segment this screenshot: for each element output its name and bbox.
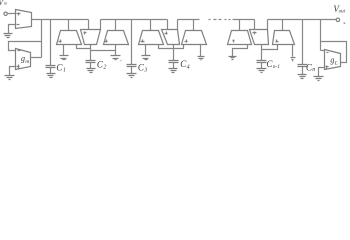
speck	[344, 22, 346, 24]
wire T6 right stub to ground mark	[200, 45, 202, 57]
wire gm output	[31, 57, 42, 59]
wire feedback tap	[9, 42, 42, 51]
svg-text:g: g	[330, 56, 334, 65]
wire gm plus to ground	[10, 67, 16, 76]
op-amp A1	[16, 10, 32, 29]
transconductor T1	[68, 20, 70, 31]
svg-text:out: out	[339, 9, 346, 14]
ground under T3	[115, 45, 117, 56]
ground	[298, 75, 307, 79]
node V5 bus	[268, 19, 337, 21]
transconductor T7	[254, 20, 256, 30]
svg-text:in: in	[4, 1, 7, 6]
wire gL plus to ground	[319, 68, 325, 77]
ground	[257, 69, 267, 73]
capacitor C2	[90, 49, 92, 61]
transconductor T2	[88, 20, 90, 30]
transconductor gm	[16, 49, 31, 70]
ground	[47, 74, 56, 78]
svg-text:3: 3	[143, 68, 147, 74]
svg-text:4: 4	[187, 63, 190, 70]
wire T1 output	[77, 45, 91, 49]
wire T5 bottom	[173, 45, 175, 49]
svg-text:n-1: n-1	[273, 64, 281, 70]
wire to T3	[91, 50, 116, 52]
node V3 bus	[178, 19, 200, 21]
transconductor T6	[193, 20, 195, 31]
node V1 bus	[32, 19, 89, 21]
capacitor C4	[173, 49, 175, 61]
input terminal Vin	[4, 12, 7, 15]
wire gL drop	[320, 20, 322, 51]
wire T4 output	[159, 45, 184, 49]
capacitor Cn-1	[261, 45, 263, 61]
capacitor Cn	[302, 20, 304, 65]
wire Tb right stub to ground mark	[292, 45, 294, 57]
capacitor C1	[50, 20, 52, 66]
node V2 bus	[101, 19, 168, 21]
transconductor Tb	[282, 20, 284, 31]
wire	[8, 13, 16, 15]
wire T2 bottom	[90, 45, 92, 49]
transconductor Ta	[239, 20, 241, 31]
node V4 bus	[233, 19, 255, 21]
ground	[87, 69, 96, 73]
wire minus input to ground	[9, 25, 16, 34]
wire Cn-1 to Tb	[262, 45, 278, 50]
transconductor T5	[167, 20, 169, 30]
output terminal Vout	[336, 18, 340, 22]
svg-text:1: 1	[63, 68, 66, 74]
ground	[127, 74, 137, 78]
wire feedback drop	[41, 20, 43, 58]
capacitor C3	[131, 20, 133, 65]
svg-text:2: 2	[103, 65, 106, 71]
transconductor T3	[115, 20, 117, 31]
transconductor T4	[150, 20, 152, 31]
wire gL input	[321, 50, 325, 52]
ground under T4	[145, 45, 147, 56]
speck	[121, 60, 122, 61]
svg-text:L: L	[334, 61, 338, 67]
svg-text:m: m	[25, 59, 29, 65]
svg-text:n: n	[312, 67, 315, 73]
wire gL feedback loop	[321, 42, 347, 63]
dashed bus ellipsis	[209, 19, 231, 21]
ground	[169, 69, 178, 73]
ground	[314, 77, 324, 81]
ground	[5, 76, 15, 80]
wire Ta stub to ground mark	[233, 45, 248, 57]
ground under T1	[63, 45, 65, 56]
ground	[4, 34, 13, 38]
transconductor gL	[325, 50, 341, 70]
